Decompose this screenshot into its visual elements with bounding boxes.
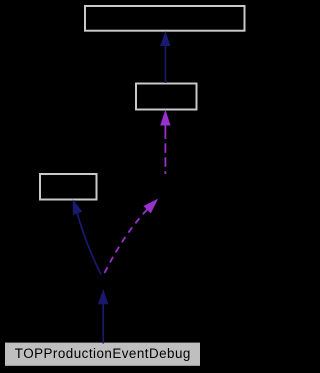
node box TOPProductionEventDebug (current class, grey fill) bbox=[5, 343, 200, 366]
wire: dashed purple usage edge (vertical) into middle box bbox=[160, 110, 170, 175]
svg-text:TOPProductionEventDebug: TOPProductionEventDebug bbox=[15, 346, 191, 361]
wire: solid navy inheritance edge (slanted) to left box bbox=[73, 199, 101, 274]
wire: dashed purple usage edge (slanted) from lower junction bbox=[105, 199, 159, 273]
wire: solid navy inheritance edge (vertical) from TOPProductionEventDebug bbox=[98, 289, 108, 344]
node box left (base class, label invisible) bbox=[40, 174, 97, 200]
wire: solid navy inheritance edge middle box to top box bbox=[160, 31, 170, 83]
node box top (base class, label invisible) bbox=[85, 6, 245, 31]
node box middle (class, label invisible) bbox=[136, 84, 197, 110]
